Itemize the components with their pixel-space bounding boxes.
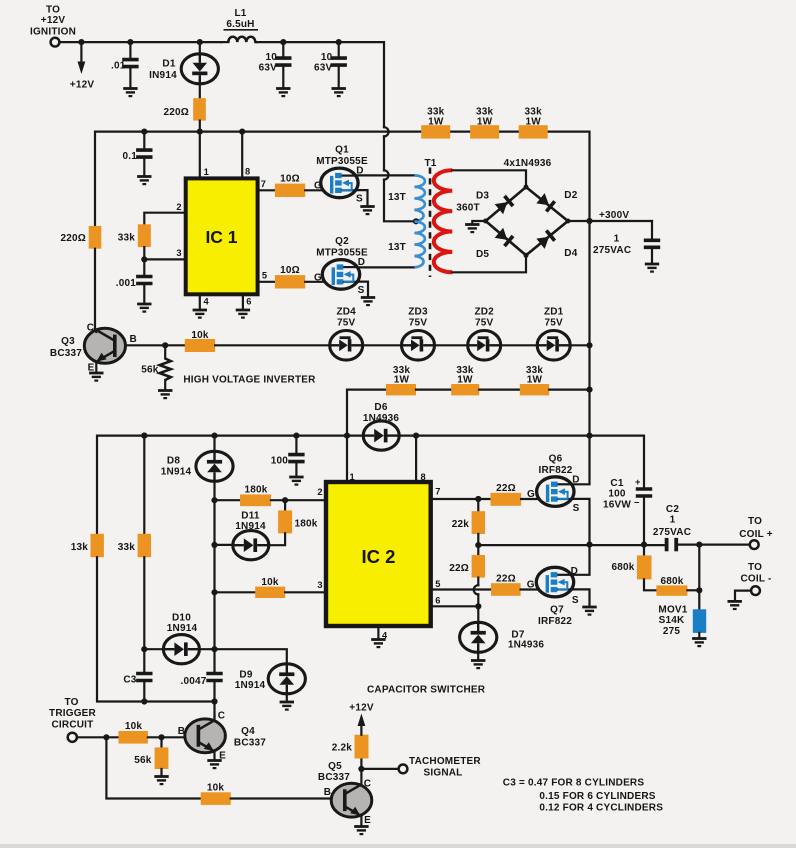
resistor 33k 1W (top row 1) bbox=[421, 107, 450, 139]
svg-text:CAPACITOR SWITCHER: CAPACITOR SWITCHER bbox=[367, 685, 486, 696]
wire 22 chain hop over pin5 bbox=[474, 578, 482, 622]
svg-text:10k: 10k bbox=[261, 577, 279, 588]
resistor 56k (Q4) bbox=[134, 737, 168, 769]
wire 180k to pin2 bbox=[271, 497, 326, 503]
svg-text:1W: 1W bbox=[428, 116, 444, 127]
svg-text:+12V: +12V bbox=[70, 80, 95, 91]
svg-text:SIGNAL: SIGNAL bbox=[424, 767, 463, 778]
svg-text:16VW: 16VW bbox=[603, 499, 631, 510]
node TO COIL - terminal bbox=[740, 562, 771, 595]
wire IC1 pin3 bbox=[141, 247, 186, 262]
svg-text:C: C bbox=[364, 779, 371, 790]
svg-text:10: 10 bbox=[321, 52, 333, 63]
svg-text:0.15 FOR 6 CYLINDERS: 0.15 FOR 6 CYLINDERS bbox=[539, 791, 655, 802]
capacitor C2 1 275VAC bbox=[653, 504, 691, 551]
svg-text:1W: 1W bbox=[527, 375, 543, 386]
node mid 22 chain bbox=[475, 534, 481, 555]
svg-text:TO: TO bbox=[64, 697, 78, 708]
node TACHOMETER SIGNAL terminal bbox=[361, 756, 481, 778]
svg-text:TO: TO bbox=[748, 562, 762, 573]
wire Q1 drain to transformer bbox=[356, 174, 414, 176]
svg-text:8: 8 bbox=[421, 472, 426, 482]
svg-text:22Ω: 22Ω bbox=[449, 563, 469, 574]
svg-text:D: D bbox=[358, 257, 365, 268]
svg-text:IC 2: IC 2 bbox=[362, 546, 396, 567]
zener ZD1 75V bbox=[537, 307, 570, 361]
svg-text:IRF822: IRF822 bbox=[538, 616, 572, 627]
wire 33k row2 left end down to IC2 pin1 bbox=[347, 390, 386, 436]
wire 10ohm to Q1 gate bbox=[305, 189, 321, 191]
svg-text:IGNITION: IGNITION bbox=[30, 27, 76, 38]
op-amp IC1 bbox=[176, 129, 267, 307]
svg-text:S: S bbox=[573, 503, 580, 514]
svg-text:75V: 75V bbox=[409, 318, 428, 329]
varistor MOV1 S14K 275 bbox=[658, 605, 706, 637]
resistor 10k (pin3) bbox=[255, 577, 285, 598]
svg-text:75V: 75V bbox=[337, 318, 356, 329]
svg-text:BC337: BC337 bbox=[318, 772, 350, 783]
svg-text:1W: 1W bbox=[394, 375, 410, 386]
svg-text:G: G bbox=[527, 579, 535, 590]
wire Q6 drain bbox=[572, 435, 590, 485]
svg-text:D3: D3 bbox=[476, 191, 489, 202]
svg-text:10: 10 bbox=[265, 52, 277, 63]
zener ZD4 75V bbox=[330, 307, 363, 361]
wire Q5 collector to 2.2k bbox=[358, 759, 364, 784]
diode D9 1N914 bbox=[235, 664, 306, 694]
svg-text:180k: 180k bbox=[244, 485, 267, 496]
svg-text:+12V: +12V bbox=[41, 15, 66, 26]
svg-text:E: E bbox=[364, 815, 371, 826]
diode D4 bbox=[536, 229, 577, 259]
wire 10k to Q5 base bbox=[231, 797, 332, 799]
ground IC1 pin4 bbox=[193, 294, 207, 317]
wire Q4 collector bbox=[213, 717, 215, 720]
wire Q2 source to ground bbox=[357, 282, 375, 306]
wire Q7 source to ground bbox=[572, 589, 597, 614]
svg-text:4: 4 bbox=[204, 296, 210, 306]
svg-text:100: 100 bbox=[608, 488, 626, 499]
svg-text:HIGH VOLTAGE INVERTER: HIGH VOLTAGE INVERTER bbox=[183, 375, 316, 386]
svg-text:ZD1: ZD1 bbox=[544, 307, 564, 318]
svg-text:10Ω: 10Ω bbox=[280, 174, 300, 185]
resistor 10ohm (pin5) bbox=[275, 265, 305, 288]
svg-text:Q3: Q3 bbox=[61, 336, 75, 347]
node TO +12V IGNITION terminal bbox=[30, 5, 76, 47]
svg-text:180k: 180k bbox=[295, 519, 318, 530]
transformer T1 primary bottom 13T bbox=[388, 222, 425, 268]
diode D8 1N914 bbox=[161, 436, 233, 482]
resistor 180k (vertical) bbox=[278, 500, 318, 533]
wire Q6 source bbox=[572, 499, 590, 544]
capacitor .01 bbox=[111, 39, 139, 96]
svg-text:5: 5 bbox=[262, 271, 267, 281]
svg-text:MOV1: MOV1 bbox=[658, 605, 687, 616]
resistor 22ohm (pin5) bbox=[491, 573, 521, 595]
svg-text:D1: D1 bbox=[162, 59, 175, 70]
svg-text:75V: 75V bbox=[544, 318, 563, 329]
svg-text:Q4: Q4 bbox=[241, 726, 255, 737]
resistor 22ohm (pin7) bbox=[491, 483, 522, 506]
svg-text:.01: .01 bbox=[111, 61, 126, 72]
svg-text:TACHOMETER: TACHOMETER bbox=[409, 756, 481, 767]
svg-text:+300V: +300V bbox=[599, 210, 629, 221]
svg-text:B: B bbox=[324, 787, 331, 798]
svg-text:+12V: +12V bbox=[349, 703, 374, 714]
node D8 rail bbox=[211, 433, 217, 439]
capacitor 100 bbox=[271, 433, 305, 485]
node TO TRIGGER CIRCUIT terminal bbox=[49, 697, 97, 742]
svg-text:33k: 33k bbox=[118, 542, 136, 553]
label C3 note bbox=[503, 778, 663, 814]
transistor Q4 BC337 bbox=[178, 711, 267, 762]
resistor 220ohm (D1) bbox=[163, 98, 205, 131]
svg-text:TO: TO bbox=[748, 516, 762, 527]
svg-text:360T: 360T bbox=[456, 202, 480, 213]
ground 56k bbox=[154, 769, 168, 784]
svg-text:Q1: Q1 bbox=[335, 145, 349, 156]
svg-text:1: 1 bbox=[204, 167, 209, 177]
svg-text:L1: L1 bbox=[234, 8, 246, 19]
resistor 10k (Q5 base) bbox=[201, 783, 231, 805]
svg-text:Q7: Q7 bbox=[550, 604, 564, 615]
resistor 22k bbox=[452, 499, 485, 534]
wire IC1 supply rail bbox=[95, 132, 421, 226]
diode D11 1N914 bbox=[211, 510, 285, 559]
resistor 33k 1W (row2 1) bbox=[386, 365, 416, 395]
resistor 33k (left) bbox=[118, 433, 151, 558]
svg-text:D8: D8 bbox=[167, 456, 180, 467]
wire trigger to Q4 base bbox=[77, 734, 119, 740]
svg-text:IC 1: IC 1 bbox=[205, 227, 237, 247]
svg-text:22k: 22k bbox=[452, 519, 470, 530]
svg-text:C1: C1 bbox=[610, 478, 623, 489]
wire top +12V rail bbox=[60, 41, 222, 43]
capacitor 10 63V (first) bbox=[259, 39, 292, 96]
wire center-tap drop with hops bbox=[383, 136, 385, 170]
svg-text:4x1N4936: 4x1N4936 bbox=[504, 158, 552, 169]
ground IC2 pin4 bbox=[371, 626, 385, 647]
svg-text:COIL -: COIL - bbox=[740, 573, 771, 584]
svg-text:5: 5 bbox=[435, 579, 440, 589]
wire IC2 pin5 bbox=[431, 588, 491, 590]
svg-text:IRF822: IRF822 bbox=[539, 465, 573, 476]
svg-text:D10: D10 bbox=[172, 612, 191, 623]
ground coil- bbox=[728, 591, 752, 609]
capacitor 10 63V (second) bbox=[314, 39, 347, 96]
svg-text:−: − bbox=[634, 498, 640, 508]
svg-text:220Ω: 220Ω bbox=[60, 233, 86, 244]
transistor Q7 IRF822 bbox=[527, 566, 579, 627]
svg-text:B: B bbox=[130, 334, 137, 345]
wire row2 gap bbox=[479, 389, 520, 391]
resistor 2.2k bbox=[332, 735, 369, 759]
wire coil+ rail bbox=[478, 544, 664, 546]
svg-text:D2: D2 bbox=[564, 190, 577, 201]
wire Q7 drain bbox=[572, 545, 590, 575]
zener ZD3 75V bbox=[402, 307, 435, 361]
diode D10 1N914 bbox=[141, 612, 199, 663]
svg-text:S: S bbox=[572, 595, 579, 606]
wire 180k to IC2 pin2 bbox=[215, 499, 241, 501]
svg-text:CIRCUIT: CIRCUIT bbox=[52, 720, 94, 731]
resistor 33k 1W (top row 2) bbox=[470, 107, 499, 139]
svg-text:TRIGGER: TRIGGER bbox=[49, 708, 97, 719]
svg-text:680k: 680k bbox=[660, 576, 683, 587]
svg-text:BC337: BC337 bbox=[234, 737, 266, 748]
node center tap bbox=[413, 218, 419, 224]
transformer T1 secondary 360T bbox=[434, 170, 480, 272]
svg-text:D5: D5 bbox=[476, 249, 489, 260]
node 56k junction bbox=[162, 342, 168, 348]
wire D10 to D9 bbox=[199, 646, 287, 664]
zener ZD2 75V bbox=[468, 307, 501, 361]
wire IC2 supply rail bbox=[97, 436, 363, 534]
resistor 10k (Q3 base) bbox=[185, 330, 215, 352]
resistor 56k zigzag bbox=[141, 345, 172, 398]
svg-text:ZD3: ZD3 bbox=[408, 307, 428, 318]
svg-text:275: 275 bbox=[663, 626, 681, 637]
resistor 22ohm (vertical) bbox=[449, 555, 485, 578]
svg-text:22Ω: 22Ω bbox=[496, 573, 516, 584]
resistor 180k (pin2) bbox=[240, 485, 271, 507]
svg-text:G: G bbox=[314, 180, 322, 191]
ground Q4 emitter bbox=[207, 752, 221, 769]
wire 10k to base bbox=[148, 734, 185, 740]
svg-text:3: 3 bbox=[317, 580, 322, 590]
transistor Q3 BC337 bbox=[50, 323, 137, 374]
wire 680k-v to 680k-h bbox=[644, 579, 656, 590]
svg-text:10k: 10k bbox=[125, 721, 143, 732]
wire IC1 pin5 to 10ohm bbox=[258, 281, 275, 283]
diode D5 bbox=[476, 228, 514, 260]
ground IC1 pin6 bbox=[236, 294, 250, 317]
wire 220ohm to Q3 collector bbox=[94, 249, 96, 330]
wire trigger down to Q5 base bbox=[106, 737, 200, 798]
resistor 680k (vertical) bbox=[611, 545, 651, 580]
svg-text:G: G bbox=[527, 489, 535, 500]
wire secondary bottom to bridge bbox=[452, 258, 526, 272]
wire Q3 base to zener row bbox=[126, 344, 186, 346]
wire IC1 pin7 to 10ohm bbox=[258, 189, 275, 191]
svg-text:D6: D6 bbox=[374, 402, 387, 413]
transformer core dashed bbox=[424, 158, 436, 277]
svg-text:7: 7 bbox=[261, 179, 266, 189]
svg-text:Q5: Q5 bbox=[328, 761, 342, 772]
wire Q1 source to ground bbox=[356, 190, 375, 214]
svg-text:S: S bbox=[356, 193, 363, 204]
wire pin3 bbox=[215, 591, 256, 593]
ground bridge left vertex bbox=[465, 221, 486, 232]
svg-text:TO: TO bbox=[46, 5, 60, 16]
transistor Q1 MTP3055E bbox=[314, 145, 368, 205]
wire L1 to corner bbox=[257, 42, 385, 127]
svg-text:COIL +: COIL + bbox=[739, 529, 773, 540]
svg-text:100: 100 bbox=[271, 456, 289, 467]
transistor Q6 IRF822 bbox=[527, 453, 580, 514]
svg-text:275VAC: 275VAC bbox=[653, 527, 691, 538]
resistor 220ohm (left rail) bbox=[60, 226, 101, 249]
svg-text:3: 3 bbox=[176, 248, 181, 258]
wire IC1 pin2 bbox=[144, 213, 185, 225]
wire Q3 collector bbox=[95, 330, 97, 333]
svg-text:8: 8 bbox=[245, 167, 250, 177]
svg-text:1N4936: 1N4936 bbox=[508, 640, 544, 651]
svg-text:13k: 13k bbox=[71, 542, 89, 553]
svg-text:ZD2: ZD2 bbox=[474, 307, 494, 318]
ground Q5 emitter bbox=[354, 816, 368, 834]
wire IC2 pin6 bbox=[431, 605, 479, 607]
wire top 33k row right end down bbox=[548, 132, 590, 221]
svg-text:2: 2 bbox=[176, 202, 181, 212]
resistor 33k 1W (top row 3) bbox=[519, 107, 548, 139]
svg-text:22Ω: 22Ω bbox=[496, 483, 516, 494]
svg-text:ZD4: ZD4 bbox=[336, 307, 356, 318]
svg-text:63V: 63V bbox=[259, 63, 278, 74]
wire IC2 pin7 bbox=[431, 498, 491, 500]
wire 22ohm to Q7 gate bbox=[521, 588, 538, 590]
wire main HV rail down bbox=[588, 221, 590, 435]
svg-text:BC337: BC337 bbox=[50, 348, 82, 359]
transistor Q2 MTP3055E bbox=[314, 236, 368, 296]
op-amp IC2 bbox=[317, 433, 440, 641]
transistor Q5 BC337 bbox=[318, 761, 372, 826]
svg-text:0.1: 0.1 bbox=[122, 151, 137, 162]
resistor 13k bbox=[71, 534, 104, 557]
node 33k row2 to rail bbox=[344, 433, 350, 439]
node 33k rail bbox=[141, 433, 147, 439]
svg-text:C3: C3 bbox=[123, 675, 136, 686]
wire D8 to 180k node bbox=[211, 481, 217, 545]
svg-text:275VAC: 275VAC bbox=[593, 245, 631, 256]
svg-text:C: C bbox=[87, 323, 94, 334]
resistor 33k 1W (row2 2) bbox=[451, 365, 479, 395]
resistor 680k (horizontal) bbox=[656, 576, 687, 596]
svg-text:1: 1 bbox=[670, 514, 676, 525]
svg-text:B: B bbox=[178, 726, 185, 737]
diode D1 1N914 bbox=[149, 39, 218, 99]
wire 33k rail down to D10/C3 bbox=[143, 557, 145, 672]
svg-text:33k: 33k bbox=[118, 233, 136, 244]
svg-text:1N914: 1N914 bbox=[235, 680, 266, 691]
svg-text:10Ω: 10Ω bbox=[280, 265, 300, 276]
resistor 10k (Q4 base) bbox=[119, 721, 148, 743]
capacitor C1 100 16VW bbox=[603, 477, 652, 544]
node TO COIL + terminal bbox=[739, 516, 773, 549]
svg-text:1: 1 bbox=[614, 234, 620, 245]
svg-text:2.2k: 2.2k bbox=[332, 743, 353, 754]
svg-text:56k: 56k bbox=[134, 755, 152, 766]
svg-text:.0047: .0047 bbox=[180, 676, 206, 687]
svg-text:Q6: Q6 bbox=[549, 453, 563, 464]
capacitor .001 bbox=[116, 259, 153, 311]
svg-text:13T: 13T bbox=[388, 242, 406, 253]
capacitor 0.1 bbox=[122, 129, 152, 185]
ground MOV1 bbox=[692, 633, 706, 646]
svg-text:1N914: 1N914 bbox=[167, 623, 198, 634]
svg-text:1: 1 bbox=[350, 472, 355, 482]
diode D3 bbox=[476, 191, 514, 215]
svg-text:+: + bbox=[635, 477, 641, 487]
diode D7 1N4936 bbox=[460, 622, 545, 652]
svg-text:220Ω: 220Ω bbox=[163, 107, 189, 118]
wire bridge out +300V bbox=[568, 210, 652, 224]
svg-text:D11: D11 bbox=[241, 510, 260, 521]
wire Q2 drain to transformer bbox=[358, 266, 415, 268]
svg-text:G: G bbox=[314, 272, 322, 283]
svg-text:1N914: 1N914 bbox=[235, 521, 266, 532]
diode D2 bbox=[536, 190, 577, 213]
wire C2 to coil+ terminal bbox=[678, 542, 750, 548]
svg-text:7: 7 bbox=[435, 487, 440, 497]
capacitor .0047 bbox=[180, 649, 222, 716]
svg-text:S14K: S14K bbox=[659, 615, 685, 626]
svg-text:D4: D4 bbox=[564, 248, 577, 259]
svg-text:D9: D9 bbox=[239, 670, 252, 681]
svg-text:13T: 13T bbox=[388, 192, 406, 203]
svg-text:IN914: IN914 bbox=[149, 70, 177, 81]
wire row2 gap bbox=[416, 389, 451, 391]
svg-text:10k: 10k bbox=[207, 783, 225, 794]
svg-text:680k: 680k bbox=[611, 562, 634, 573]
svg-text:1W: 1W bbox=[477, 116, 493, 127]
node +12V arrow (Q5) bbox=[349, 703, 374, 735]
diode bridge frame bbox=[483, 185, 570, 258]
svg-text:6: 6 bbox=[246, 296, 251, 306]
wire 13k rail down bbox=[97, 557, 215, 701]
svg-text:0.12 FOR 4 CYCLINDERS: 0.12 FOR 4 CYCLINDERS bbox=[539, 803, 663, 814]
wire D8 node down to pin3 node bbox=[211, 545, 217, 649]
wire 680k-h to MOV rail bbox=[687, 545, 702, 610]
ground D9 bbox=[280, 694, 294, 710]
svg-text:1N914: 1N914 bbox=[161, 466, 192, 477]
wire 22ohm to Q6 gate bbox=[521, 498, 537, 500]
svg-text:S: S bbox=[358, 285, 365, 296]
svg-text:Q2: Q2 bbox=[335, 236, 349, 247]
ground D7 bbox=[471, 652, 485, 668]
svg-text:63V: 63V bbox=[314, 63, 333, 74]
resistor 10ohm (pin7) bbox=[275, 174, 305, 197]
node +12V arrow bbox=[70, 39, 95, 91]
wire 10k to pin3 bbox=[285, 591, 326, 593]
wire 33k row gaps bbox=[450, 131, 470, 133]
svg-text:1N4936: 1N4936 bbox=[363, 413, 399, 424]
svg-text:56k: 56k bbox=[141, 364, 159, 375]
ground Q3 emitter bbox=[89, 362, 103, 381]
capacitor 1 275VAC (300V) bbox=[593, 221, 660, 272]
svg-text:6.5uH: 6.5uH bbox=[226, 19, 254, 30]
svg-text:10k: 10k bbox=[191, 330, 209, 341]
svg-text:.001: .001 bbox=[116, 278, 137, 289]
diode D6 1N4936 bbox=[363, 402, 399, 450]
resistor 33k 1W (row2 3) bbox=[520, 365, 549, 395]
svg-text:6: 6 bbox=[435, 595, 440, 605]
svg-text:2: 2 bbox=[317, 487, 322, 497]
wire 10ohm to Q2 gate bbox=[305, 281, 322, 283]
wire row2 right end bbox=[549, 387, 592, 393]
transformer T1 primary top 13T bbox=[388, 175, 425, 221]
svg-text:1W: 1W bbox=[457, 375, 473, 386]
capacitor C3 bbox=[123, 674, 152, 705]
svg-text:75V: 75V bbox=[475, 318, 494, 329]
resistor 33k (IC1) bbox=[118, 224, 151, 247]
svg-text:1W: 1W bbox=[525, 116, 541, 127]
svg-text:C: C bbox=[218, 711, 225, 722]
inductor L1 6.5uH bbox=[222, 8, 259, 42]
wire zener row bbox=[215, 344, 330, 346]
wire secondary top to bridge bbox=[452, 170, 526, 184]
svg-text:C3 = 0.47 FOR 8 CYLINDERS: C3 = 0.47 FOR 8 CYLINDERS bbox=[503, 778, 645, 789]
